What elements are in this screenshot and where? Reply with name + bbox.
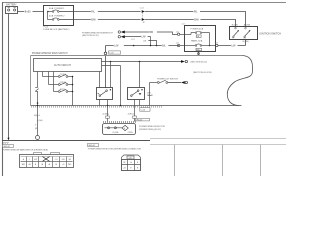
svg-text:J-02: J-02	[176, 43, 179, 45]
svg-text:A (L/W): A (L/W)	[244, 24, 251, 27]
svg-text:FUSE BLOCK (BATTERY): FUSE BLOCK (BATTERY)	[44, 28, 70, 31]
svg-text:POWER CUT SWITCH: POWER CUT SWITCH	[157, 78, 178, 80]
svg-text:(SECTION 09-12): (SECTION 09-12)	[82, 35, 99, 37]
svg-text:IG1: IG1	[243, 38, 246, 40]
svg-text:40 A POWER 2: 40 A POWER 2	[49, 15, 65, 18]
svg-text:OPEN: OPEN	[60, 82, 66, 84]
svg-text:C-01: C-01	[140, 8, 144, 10]
svg-text:POWER WINDOW MAIN SWITCH: POWER WINDOW MAIN SWITCH	[32, 52, 68, 55]
svg-text:POWER WINDOW MOTOR (DRIVER SID: POWER WINDOW MOTOR (DRIVER SIDE) CONNECT…	[88, 149, 141, 151]
svg-text:ST: ST	[232, 38, 234, 40]
svg-text:AUTO CIRCUIT: AUTO CIRCUIT	[54, 64, 71, 67]
svg-text:E(B)+1: E(B)+1	[34, 115, 40, 117]
svg-text:CLOSE: CLOSE	[112, 132, 119, 134]
svg-text:B/R: B/R	[149, 32, 153, 34]
svg-text:POWER WINDOW MAIN SWITCH (DRIV: POWER WINDOW MAIN SWITCH (DRIVER SIDE)	[2, 148, 48, 151]
svg-text:+ (1,A): + (1,A)	[37, 119, 43, 122]
svg-text:UW: UW	[34, 159, 37, 161]
svg-text:GND-02: GND-02	[88, 145, 95, 147]
svg-text:3 (R/L): 3 (R/L)	[128, 114, 134, 116]
svg-text:CL/RG: CL/RG	[60, 74, 67, 76]
svg-text:(SECTION 09-12 B): (SECTION 09-12 B)	[193, 72, 212, 74]
svg-text:IPD-02: IPD-02	[136, 120, 142, 122]
svg-text:GND-01: GND-01	[3, 146, 10, 148]
svg-text:+2 (B/L): +2 (B/L)	[102, 114, 110, 116]
svg-text:B+50: B+50	[25, 11, 31, 14]
svg-text:J-05: J-05	[215, 43, 218, 45]
svg-text:POWER 40 A: POWER 40 A	[191, 28, 204, 31]
svg-text:GW: GW	[61, 159, 64, 161]
svg-text:C-07: C-07	[131, 39, 135, 41]
svg-text:J-01: J-01	[176, 31, 179, 33]
svg-text:AUTO: AUTO	[60, 88, 66, 91]
svg-text:(SECTION 09-12): (SECTION 09-12)	[191, 61, 208, 63]
svg-text:WO: WO	[68, 164, 72, 166]
svg-text:(DRIVER SIDE) (09-12): (DRIVER SIDE) (09-12)	[139, 129, 161, 131]
svg-text:WO: WO	[22, 164, 26, 166]
svg-text:(B): (B)	[35, 128, 38, 130]
svg-text:OPEN: OPEN	[128, 132, 134, 134]
svg-text:B (L/R): B (L/R)	[232, 25, 238, 27]
svg-text:40 A POWER 1: 40 A POWER 1	[49, 7, 65, 10]
svg-text:IGNITION SWITCH: IGNITION SWITCH	[259, 33, 281, 36]
svg-text:POWER WINDOW MOTOR: POWER WINDOW MOTOR	[139, 126, 165, 128]
svg-text:PANEL 30 A: PANEL 30 A	[191, 39, 203, 42]
svg-text:BATTERY: BATTERY	[6, 3, 17, 6]
